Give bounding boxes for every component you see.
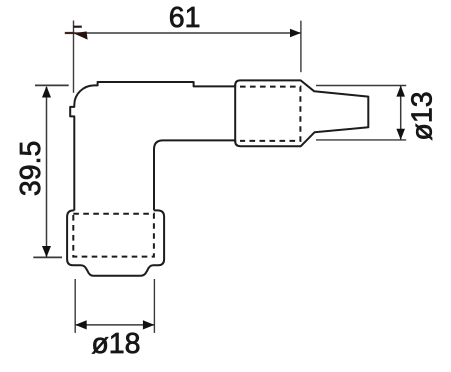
boot hidden bore (dashed)	[240, 87, 300, 141]
dim ø18: left arrowhead	[75, 320, 87, 329]
dim ø13: dimension line	[400, 86, 402, 140]
dim ø18: dimension line	[75, 324, 154, 326]
dim ø13: down arrowhead	[396, 129, 405, 140]
dim 39.5: down arrowhead	[42, 246, 51, 257]
svg-text:ø13: ø13	[406, 91, 438, 140]
dim 61: right arrowhead	[290, 29, 301, 37]
dim ø18: right arrowhead	[143, 320, 155, 329]
dim ø13: top extension line	[316, 85, 406, 87]
boot left edge	[234, 85, 236, 143]
dim ø18: right extension line	[153, 279, 155, 333]
lower cap hidden bore (dashed rect)	[73, 214, 154, 257]
lower cap outline	[67, 210, 164, 275]
dim 39.5: bottom tick	[33, 256, 62, 258]
dim ø13: bottom extension line	[316, 139, 406, 141]
dim 61: dimension line	[65, 32, 301, 34]
dim 61: left extension line	[73, 21, 75, 93]
dim 61: right extension line	[300, 21, 302, 72]
svg-text:39.5: 39.5	[15, 141, 47, 196]
dim 39.5: dimension line	[46, 87, 48, 257]
svg-text:ø18: ø18	[91, 328, 140, 360]
dim 39.5: top tick	[35, 84, 69, 86]
dim ø13: up arrowhead	[396, 86, 405, 97]
dim ø18: left extension line	[74, 279, 76, 333]
dim 61: small upper dash at left	[73, 26, 82, 28]
dim 61: left arrowhead (tilted)	[74, 31, 88, 39]
spark plug cap body outline (arm + boot)	[70, 80, 368, 210]
dim 39.5: up arrowhead	[42, 86, 51, 98]
svg-text:61: 61	[169, 2, 201, 34]
